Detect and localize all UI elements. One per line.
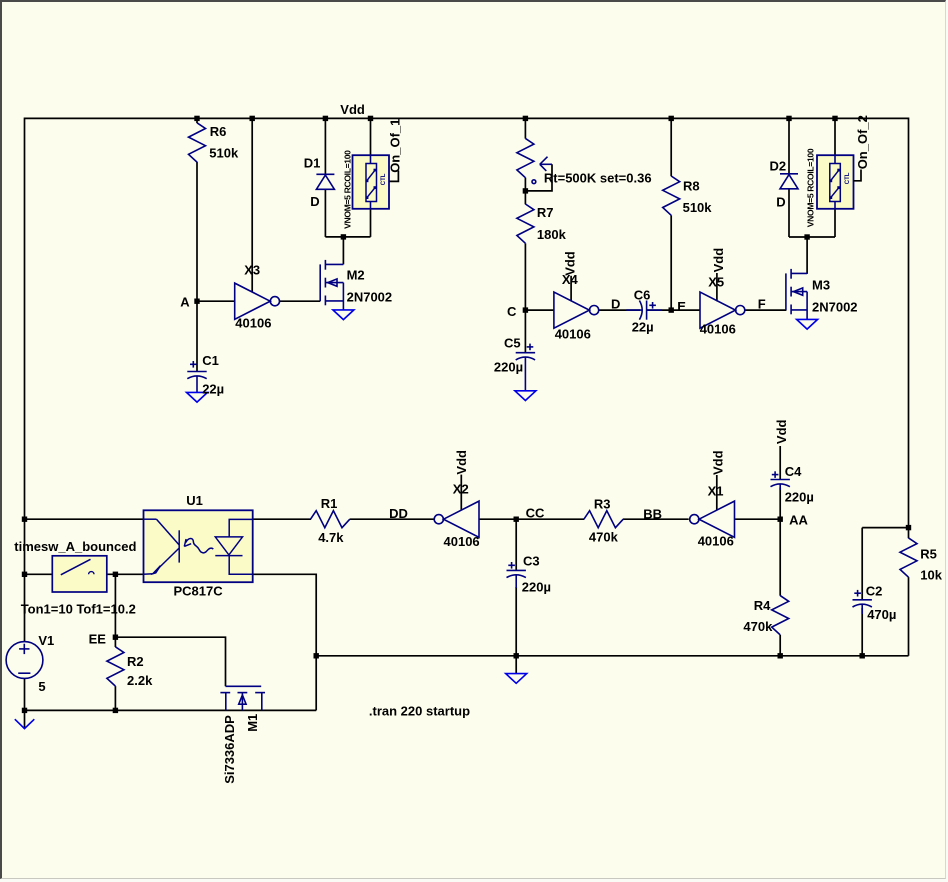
svg-text:D: D bbox=[310, 194, 319, 209]
svg-text:X1: X1 bbox=[708, 483, 724, 498]
node A bbox=[180, 295, 190, 310]
resistor R1 bbox=[311, 511, 350, 528]
label X5 bbox=[708, 274, 724, 289]
value 2N7002 M2 bbox=[347, 289, 393, 304]
label M1 (rotated) bbox=[245, 714, 260, 732]
inverter X3 bbox=[235, 283, 280, 319]
svg-text:Vdd: Vdd bbox=[711, 450, 726, 475]
label X2 bbox=[453, 482, 469, 497]
directive .tran 220 startup bbox=[369, 704, 470, 719]
svg-text:V1: V1 bbox=[38, 633, 54, 648]
wire relay2 to D2 horizontal bbox=[789, 236, 835, 238]
label R3 bbox=[594, 497, 611, 512]
junction node E bbox=[669, 307, 674, 312]
svg-text:Vdd: Vdd bbox=[340, 102, 365, 117]
wire node AA to R4 bbox=[779, 519, 781, 596]
value 2N7002 M3 bbox=[812, 300, 858, 315]
svg-text:Vdd: Vdd bbox=[454, 450, 469, 475]
svg-text:C2: C2 bbox=[866, 584, 883, 599]
junction R5-C2 branch bbox=[906, 525, 911, 530]
svg-text:M3: M3 bbox=[812, 277, 830, 292]
label X4 bbox=[562, 272, 579, 287]
svg-text:R1: R1 bbox=[321, 496, 338, 511]
ground under C1 bbox=[187, 392, 208, 402]
svg-text:40106: 40106 bbox=[444, 534, 480, 549]
svg-text:Vdd: Vdd bbox=[774, 419, 789, 444]
wire X5 output to M3 gate bbox=[745, 309, 787, 311]
net label Vdd top rail bbox=[340, 102, 365, 117]
svg-text:Vdd: Vdd bbox=[563, 251, 578, 276]
junction ground rail C2 bbox=[860, 653, 865, 658]
label D2 bbox=[770, 158, 787, 173]
node D at D2 bbox=[776, 195, 785, 210]
value VNOM=5 RCOIL=100 relay2 (rotated) bbox=[806, 148, 816, 227]
value 40106 X1 bbox=[698, 533, 734, 548]
value 40106 X2 bbox=[444, 534, 480, 549]
junction V1 minus bbox=[22, 708, 27, 713]
junction M2 drain bbox=[341, 234, 346, 239]
label X3 bbox=[244, 262, 260, 277]
label R6 bbox=[210, 124, 227, 139]
value 10k R5 bbox=[920, 567, 942, 582]
wire R2 bottom to rail bbox=[114, 686, 116, 710]
svg-text:On_Of_2: On_Of_2 bbox=[855, 115, 870, 169]
junction switch-EE bbox=[113, 572, 118, 577]
junction M3 drain bbox=[804, 234, 809, 239]
wire node CC to C3 bbox=[515, 519, 517, 570]
svg-text:timesw_A_bounced: timesw_A_bounced bbox=[14, 539, 136, 554]
wire relay2 coil bottom pin bbox=[834, 209, 836, 237]
value 40106 X5 bbox=[700, 322, 736, 337]
wire Vdd top rail bbox=[25, 117, 909, 119]
value 2.2k R2 bbox=[127, 673, 153, 688]
svg-text:4.7k: 4.7k bbox=[318, 530, 344, 545]
svg-text:DD: DD bbox=[389, 506, 408, 521]
junction ground rail C3 bbox=[514, 653, 519, 658]
wire X2 input to node CC bbox=[479, 518, 516, 520]
wire node CC to R3 bbox=[516, 518, 584, 520]
value 180k R7 bbox=[537, 227, 567, 242]
svg-text:CC: CC bbox=[526, 505, 545, 520]
inverter X5 bbox=[700, 292, 745, 328]
svg-text:CTL: CTL bbox=[845, 172, 851, 184]
junction Vdd-R6 bbox=[194, 116, 199, 121]
diode D2 bbox=[780, 174, 798, 189]
switch timesw_A_bounced bbox=[52, 556, 107, 592]
capacitor C2 bbox=[853, 590, 872, 614]
wire relay2 coil top pin bbox=[834, 118, 836, 155]
node AA label bbox=[789, 513, 808, 528]
relay2 CTL pin stub bbox=[854, 170, 862, 181]
value 510k R6 bbox=[209, 145, 239, 160]
wire R6 bottom to node A bbox=[196, 162, 198, 302]
inverter X4 bbox=[554, 292, 599, 328]
wire U1 collector row bbox=[25, 518, 144, 520]
pin CTL relay2 (rotated) bbox=[845, 172, 851, 184]
wire M3 drain bbox=[806, 237, 808, 274]
svg-text:R6: R6 bbox=[210, 124, 227, 139]
net label Vdd X4 (rotated) bbox=[563, 251, 578, 276]
wire C2 bottom to ground rail bbox=[861, 608, 863, 656]
net label Vdd X2 (rotated) bbox=[454, 450, 469, 475]
wire EE to R2 bbox=[114, 637, 116, 647]
value 40106 X4 bbox=[555, 327, 591, 342]
voltage source V1 bbox=[6, 642, 43, 679]
wire node A to X3 input bbox=[197, 300, 235, 302]
wire X3 Vdd stub bbox=[251, 118, 253, 291]
wire X4 Vdd stub bbox=[570, 276, 572, 301]
svg-text:AA: AA bbox=[789, 513, 808, 528]
svg-text:VNOM=5 RCOIL=100: VNOM=5 RCOIL=100 bbox=[806, 148, 816, 227]
junction Vdd-relay1 bbox=[368, 116, 373, 121]
relay1 CTL pin stub bbox=[389, 171, 398, 182]
resistor R8 bbox=[663, 176, 680, 215]
label M2 bbox=[347, 267, 365, 282]
capacitor C1 bbox=[187, 361, 206, 393]
resistor Rt potentiometer bbox=[517, 138, 552, 183]
wire relay1 coil top pin bbox=[370, 118, 372, 155]
wire R5 top branch bbox=[862, 527, 908, 529]
resistor R2 bbox=[107, 647, 124, 686]
svg-text:C4: C4 bbox=[785, 464, 802, 479]
junction node CC bbox=[514, 517, 519, 522]
net label On_Of_2 (rotated) bbox=[855, 115, 870, 169]
node E label bbox=[677, 299, 686, 314]
value Si7336ADP M1 (rotated) bbox=[222, 715, 237, 784]
value 22u C1 bbox=[202, 382, 224, 397]
wire V1 bottom bbox=[24, 678, 26, 710]
wire switch left bbox=[25, 573, 53, 575]
resistor R3 bbox=[584, 511, 623, 528]
label R4 bbox=[754, 598, 771, 613]
svg-text:R5: R5 bbox=[920, 547, 937, 562]
svg-text:BB: BB bbox=[643, 507, 662, 522]
wire R8 bottom to node E bbox=[670, 215, 672, 310]
label D1 bbox=[304, 155, 321, 170]
value VNOM=5 RCOIL=100 relay1 (rotated) bbox=[343, 150, 353, 229]
ground under C3 bbox=[506, 674, 527, 684]
wire relay1 coil bottom pin bbox=[370, 209, 372, 237]
capacitor C6 bbox=[626, 301, 662, 320]
wire R4 bottom to ground rail bbox=[779, 635, 781, 656]
wire X4 output to C6 bbox=[599, 309, 640, 311]
value 510k R8 bbox=[683, 200, 713, 215]
svg-text:470k: 470k bbox=[589, 529, 619, 544]
svg-text:Vdd: Vdd bbox=[711, 248, 726, 273]
svg-text:220µ: 220µ bbox=[522, 580, 551, 595]
label R7 bbox=[537, 205, 554, 220]
svg-text:VNOM=5 RCOIL=100: VNOM=5 RCOIL=100 bbox=[343, 150, 353, 229]
svg-text:R4: R4 bbox=[754, 598, 771, 613]
pin CTL relay1 (rotated) bbox=[381, 173, 387, 185]
relay coil K2 bbox=[817, 155, 854, 209]
wire D1 top bbox=[324, 118, 326, 174]
node F label bbox=[758, 297, 766, 312]
svg-text:470k: 470k bbox=[743, 619, 773, 634]
svg-text:40106: 40106 bbox=[698, 533, 734, 548]
wire node C to C5 bbox=[524, 310, 526, 353]
svg-text:22µ: 22µ bbox=[202, 382, 224, 397]
junction Vdd-Rt bbox=[523, 116, 528, 121]
wire R7 bottom to node C bbox=[524, 243, 526, 310]
svg-text:10k: 10k bbox=[920, 567, 942, 582]
svg-text:D: D bbox=[776, 195, 785, 210]
svg-text:Rt=500K set=0.36: Rt=500K set=0.36 bbox=[544, 170, 652, 185]
svg-text:CTL: CTL bbox=[381, 173, 387, 185]
label R8 bbox=[683, 179, 700, 194]
net label Vdd C4 (rotated) bbox=[774, 419, 789, 444]
value 220u C4 bbox=[785, 489, 814, 504]
svg-text:2N7002: 2N7002 bbox=[812, 300, 858, 315]
label R2 bbox=[127, 654, 144, 669]
svg-text:2.2k: 2.2k bbox=[127, 673, 153, 688]
value Ton1=10 Tof1=10.2 bbox=[21, 602, 136, 617]
svg-text:R8: R8 bbox=[683, 179, 700, 194]
wire D2 top bbox=[788, 118, 790, 173]
svg-text:PC817C: PC817C bbox=[174, 584, 224, 599]
wire C3 ground lead bbox=[515, 656, 517, 674]
value 470k R3 bbox=[589, 529, 619, 544]
svg-text:C3: C3 bbox=[523, 553, 540, 568]
node DD label bbox=[389, 506, 408, 521]
junction left rail U1 bbox=[22, 517, 27, 522]
svg-text:EE: EE bbox=[89, 632, 107, 647]
wire Rt top bbox=[524, 118, 526, 138]
resistor R5 bbox=[900, 538, 917, 577]
node BB label bbox=[643, 507, 662, 522]
svg-text:40106: 40106 bbox=[700, 322, 736, 337]
wire X1 input to node AA bbox=[735, 518, 781, 520]
transistor M2 bbox=[320, 260, 343, 310]
junction Vdd-D1 bbox=[323, 116, 328, 121]
inverter X1 (mirrored) bbox=[690, 501, 735, 537]
label U1 bbox=[186, 493, 203, 508]
svg-text:C1: C1 bbox=[202, 353, 219, 368]
wire node A to C1 bbox=[196, 301, 198, 372]
value 40106 X3 bbox=[235, 315, 271, 330]
net label On_Of_1 (rotated) bbox=[388, 119, 403, 173]
resistor R7 bbox=[517, 204, 534, 243]
capacitor C5 bbox=[516, 344, 535, 391]
wire R6 top bbox=[196, 118, 198, 123]
node EE label bbox=[89, 632, 107, 647]
junction Rt wiper bbox=[523, 188, 528, 193]
label C5 bbox=[504, 336, 521, 351]
capacitor C4 bbox=[771, 471, 790, 490]
wire node C to X4 input bbox=[525, 309, 554, 311]
value 22u C6 bbox=[632, 319, 654, 334]
diode D1 bbox=[316, 174, 334, 189]
label R5 bbox=[920, 547, 937, 562]
svg-text:40106: 40106 bbox=[235, 315, 271, 330]
svg-text:D: D bbox=[611, 297, 620, 312]
wire M2 drain bbox=[342, 237, 344, 265]
svg-text:X5: X5 bbox=[708, 274, 724, 289]
value Rt=500K set=0.36 bbox=[544, 170, 652, 185]
transistor M1 (rotated) bbox=[220, 686, 265, 710]
svg-text:X2: X2 bbox=[453, 482, 469, 497]
wire C2 top bbox=[861, 528, 863, 601]
ground arrow V1 bbox=[15, 719, 35, 728]
optocoupler U1 bbox=[144, 510, 253, 582]
svg-text:A: A bbox=[180, 295, 190, 310]
wire relay1 to D1 horizontal bbox=[325, 236, 370, 238]
relay coil K1 bbox=[353, 155, 390, 209]
wire switch junction down to EE bbox=[114, 574, 116, 637]
wire Rt bottom to R7 bbox=[524, 178, 526, 205]
svg-text:E: E bbox=[677, 299, 686, 314]
node CC label bbox=[526, 505, 545, 520]
svg-text:R7: R7 bbox=[537, 205, 554, 220]
wire R1 to X2 output DD bbox=[350, 518, 435, 520]
svg-text:M2: M2 bbox=[347, 267, 365, 282]
svg-text:5: 5 bbox=[38, 679, 45, 694]
wire C6 to node E bbox=[647, 309, 672, 311]
ground under M3 bbox=[797, 319, 818, 329]
junction ground rail R4 bbox=[778, 653, 783, 658]
transistor M3 bbox=[786, 269, 807, 320]
wire C3 to ground rail bbox=[515, 587, 517, 656]
label C3 bbox=[523, 553, 540, 568]
svg-text:510k: 510k bbox=[209, 145, 239, 160]
wire V1 ground stub bbox=[24, 710, 26, 728]
wire U1 cathode to M1 drain bbox=[253, 574, 317, 710]
value 470u C2 bbox=[867, 607, 896, 622]
svg-text:40106: 40106 bbox=[555, 327, 591, 342]
label C4 bbox=[785, 464, 802, 479]
svg-text:R3: R3 bbox=[594, 497, 611, 512]
net label Vdd X1 (rotated) bbox=[711, 450, 726, 475]
svg-text:180k: 180k bbox=[537, 227, 567, 242]
svg-text:R2: R2 bbox=[127, 654, 144, 669]
svg-text:C: C bbox=[507, 304, 517, 319]
svg-text:470µ: 470µ bbox=[867, 607, 896, 622]
junction Vdd-relay2 bbox=[832, 116, 837, 121]
junction node A bbox=[194, 299, 199, 304]
svg-text:On_Of_1: On_Of_1 bbox=[388, 119, 403, 173]
wire D2 bottom bbox=[788, 189, 790, 237]
label X1 bbox=[708, 483, 724, 498]
wire bottom rail bbox=[24, 709, 317, 711]
junction left rail switch bbox=[22, 572, 27, 577]
svg-text:220µ: 220µ bbox=[494, 360, 523, 375]
junction node C bbox=[523, 307, 528, 312]
node D at D1 bbox=[310, 194, 319, 209]
wire R3 to X1 output BB bbox=[623, 518, 689, 520]
label M3 bbox=[812, 277, 830, 292]
wire X1 Vdd stub bbox=[716, 475, 718, 510]
value 4.7k R1 bbox=[318, 530, 344, 545]
value PC817C bbox=[174, 584, 224, 599]
wire X5 Vdd stub bbox=[716, 273, 718, 301]
wire right rail upper bbox=[908, 118, 910, 539]
net label Vdd X5 (rotated) bbox=[711, 248, 726, 273]
wire U1 anode to R1 bbox=[253, 518, 311, 520]
wire node E to X5 input bbox=[671, 309, 700, 311]
svg-text:D2: D2 bbox=[770, 158, 787, 173]
value 470k R4 bbox=[743, 619, 773, 634]
label timesw_A_bounced bbox=[14, 539, 136, 554]
capacitor C3 bbox=[507, 562, 526, 588]
junction Vdd-X3 bbox=[250, 116, 255, 121]
label C1 bbox=[202, 353, 219, 368]
junction R2 bottom bbox=[113, 708, 118, 713]
svg-text:510k: 510k bbox=[683, 200, 713, 215]
svg-text:Si7336ADP: Si7336ADP bbox=[222, 715, 237, 784]
svg-text:2N7002: 2N7002 bbox=[347, 289, 393, 304]
label C6 bbox=[634, 287, 651, 302]
svg-text:U1: U1 bbox=[186, 493, 203, 508]
junction Vdd-D2 bbox=[786, 116, 791, 121]
wire X3 output to M2 gate bbox=[280, 300, 320, 302]
value 220u C3 bbox=[522, 580, 551, 595]
junction node EE bbox=[113, 635, 118, 640]
wire EE to M1 gate horizontal bbox=[115, 637, 225, 686]
svg-text:F: F bbox=[758, 297, 766, 312]
svg-text:.tran 220 startup: .tran 220 startup bbox=[369, 704, 470, 719]
label C2 bbox=[866, 584, 883, 599]
value 220u C5 bbox=[494, 360, 523, 375]
inverter X2 (mirrored) bbox=[434, 501, 479, 537]
svg-text:Ton1=10 Tof1=10.2: Ton1=10 Tof1=10.2 bbox=[21, 602, 136, 617]
svg-text:22µ: 22µ bbox=[632, 319, 654, 334]
wire X2 Vdd stub bbox=[460, 475, 462, 511]
node D label bbox=[611, 297, 620, 312]
svg-text:C6: C6 bbox=[634, 287, 651, 302]
svg-text:D1: D1 bbox=[304, 155, 321, 170]
svg-text:220µ: 220µ bbox=[785, 489, 814, 504]
svg-text:X3: X3 bbox=[244, 262, 260, 277]
wire R8 top bbox=[670, 118, 672, 176]
junction ground rail M1 bbox=[314, 653, 319, 658]
resistor R6 bbox=[189, 123, 206, 162]
junction node AA bbox=[778, 517, 783, 522]
ground under C5 bbox=[515, 391, 536, 401]
junction Vdd-R8 bbox=[669, 116, 674, 121]
wire right rail lower bbox=[908, 577, 910, 656]
resistor R4 bbox=[772, 596, 789, 635]
label R1 bbox=[321, 496, 338, 511]
wire C4 top Vdd stub bbox=[779, 446, 781, 480]
svg-text:M1: M1 bbox=[245, 714, 260, 732]
wire switch right to U1 bbox=[107, 573, 144, 575]
label V1 bbox=[38, 633, 54, 648]
wire Rt wiper bracket bbox=[525, 164, 552, 191]
ground under M2 bbox=[333, 310, 354, 320]
value 5 V1 bbox=[38, 679, 45, 694]
wire left rail bbox=[24, 118, 26, 642]
wire D1 bottom bbox=[324, 189, 326, 237]
wire C4 bottom to node AA bbox=[779, 488, 781, 520]
node C label bbox=[507, 304, 517, 319]
svg-text:C5: C5 bbox=[504, 336, 521, 351]
wire ground rail bbox=[316, 655, 908, 657]
